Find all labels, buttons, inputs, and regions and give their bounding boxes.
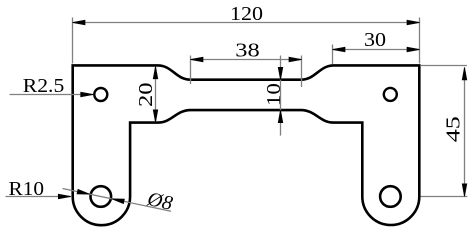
svg-text:R2.5: R2.5	[23, 75, 65, 97]
svg-text:45: 45	[443, 116, 465, 142]
hole left small R2.5	[94, 88, 107, 101]
svg-text:120: 120	[230, 3, 263, 25]
part outline (bracket plate)	[73, 65, 420, 225]
svg-text:R10: R10	[9, 178, 45, 200]
dimension 10	[263, 56, 285, 136]
dimension 30	[333, 29, 420, 64]
dimension 38	[191, 40, 302, 87]
svg-text:38: 38	[235, 40, 260, 62]
leader Ø8	[63, 188, 175, 215]
dimension 120	[73, 3, 420, 63]
svg-text:10: 10	[263, 83, 285, 106]
leader R2.5	[10, 75, 94, 97]
dimension 20	[135, 66, 158, 122]
hole right small R2.5	[384, 88, 397, 101]
svg-text:30: 30	[364, 29, 386, 51]
hole left big Ø8	[91, 186, 112, 207]
svg-text:20: 20	[135, 82, 157, 107]
dimension 45	[421, 66, 468, 197]
leader R10	[6, 178, 71, 200]
hole right big Ø8	[380, 186, 401, 207]
